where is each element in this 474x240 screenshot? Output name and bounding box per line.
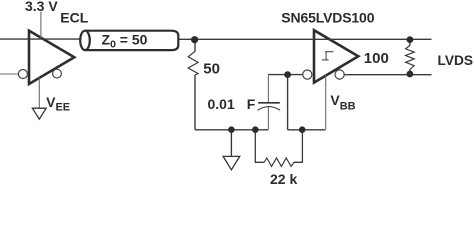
svg-text:ECL: ECL	[60, 10, 88, 26]
svg-text:3.3 V: 3.3 V	[25, 0, 58, 14]
svg-text:F: F	[247, 96, 256, 112]
svg-text:SN65LVDS100: SN65LVDS100	[281, 9, 374, 25]
svg-text:100: 100	[364, 50, 389, 67]
svg-text:22 k: 22 k	[270, 171, 297, 185]
svg-text:0.01: 0.01	[208, 96, 235, 112]
svg-text:50: 50	[203, 60, 220, 77]
svg-text:LVDS: LVDS	[438, 53, 474, 68]
